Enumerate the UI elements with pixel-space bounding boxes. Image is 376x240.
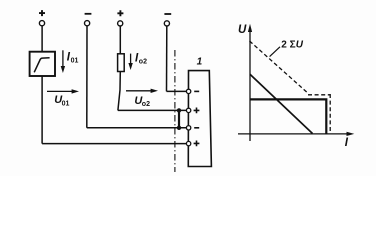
terminal + of source 1 <box>39 10 45 26</box>
current arrow I02 <box>128 54 132 70</box>
wire horizontal to box terminal 1 <box>167 90 187 92</box>
junction dot lower <box>177 126 181 130</box>
terminal + of source 2 <box>117 10 123 26</box>
svg-text:o2: o2 <box>139 59 147 66</box>
box terminal 1 circle <box>186 89 190 93</box>
resistor (internal resistance of source 2) <box>118 54 125 72</box>
voltage arrow U01 <box>47 89 79 93</box>
label U01 <box>54 94 69 107</box>
source block U01 (limited-characteristic symbol) <box>30 52 55 76</box>
box terminal 3 circle <box>186 126 190 130</box>
svg-text:U: U <box>296 40 304 51</box>
label I01 <box>67 51 79 64</box>
characteristic of source 2 (limited: horizontal then vertical) <box>250 99 326 133</box>
box terminal 3 minus sign <box>194 127 199 129</box>
label U02 <box>134 95 150 108</box>
box terminal 1 minus sign <box>194 90 199 92</box>
box terminal 4 plus sign <box>194 141 200 147</box>
svg-text:I: I <box>345 137 349 149</box>
wire from terminal - of source 1 down <box>86 26 88 128</box>
graph U axis <box>248 24 252 141</box>
measuring box 1 outline <box>188 71 211 167</box>
wire horizontal to box terminal 2 <box>118 109 186 111</box>
box terminal 2 circle <box>186 108 190 112</box>
wire bottom horizontal to box terminal 4 <box>42 143 186 145</box>
sum characteristic dashed line 2 <box>250 41 331 134</box>
wire from terminal + of source 2 down to resistor <box>119 26 121 54</box>
wire from terminal - of source 2 down <box>166 26 168 91</box>
terminal - of source 1 <box>85 14 92 26</box>
wire horizontal to box terminal 3 <box>87 127 187 129</box>
characteristic of source 1 (sloped line) <box>250 74 313 133</box>
voltage arrow U02 <box>126 89 158 93</box>
junction dot upper <box>177 108 181 112</box>
svg-text:2: 2 <box>281 40 287 51</box>
boundary chain line (dash-dot) <box>174 50 176 172</box>
svg-text:01: 01 <box>71 58 79 65</box>
current arrow I01 <box>61 50 65 73</box>
terminal - of source 2 <box>164 14 171 26</box>
wire from limiter box down to bottom corner <box>41 76 43 144</box>
svg-text:U: U <box>238 24 247 36</box>
series jumper wire between middle nets <box>178 110 180 127</box>
leader line from label 2 <box>270 47 280 57</box>
label 2 sigma U <box>281 40 304 51</box>
box terminal 4 circle <box>186 141 190 145</box>
svg-text:01: 01 <box>62 101 70 108</box>
graph I axis <box>238 132 354 136</box>
wire from resistor down to corner <box>118 72 120 111</box>
svg-text:Σ: Σ <box>290 40 296 51</box>
svg-text:1: 1 <box>197 56 203 67</box>
wire from terminal + down to limiter box <box>41 26 43 52</box>
svg-text:o2: o2 <box>142 101 150 108</box>
label I02 <box>135 52 147 65</box>
box terminal 2 plus sign <box>194 108 200 114</box>
